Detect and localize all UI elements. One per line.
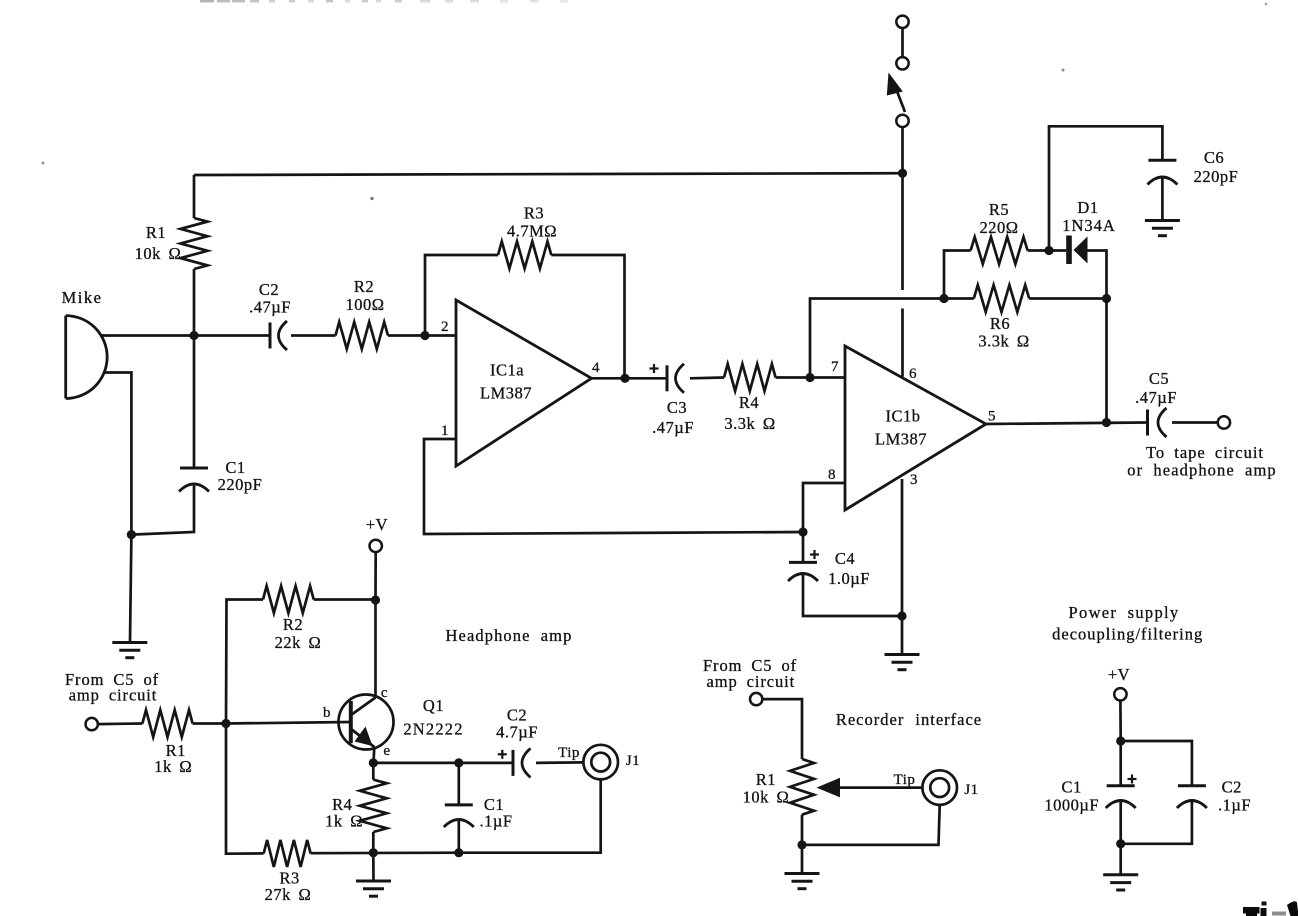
label pin 4 [592, 360, 600, 376]
wire mike output to R1 node [101, 334, 194, 337]
resistor R4 (3.3k) [724, 364, 776, 391]
svg-text:b: b [323, 705, 331, 721]
wire pin1 loop [424, 439, 803, 534]
svg-text:decoupling/filtering: decoupling/filtering [1052, 625, 1203, 644]
node pin3-C4 junction [897, 611, 906, 620]
transistor Q1 (2N2222) [339, 695, 394, 750]
svg-text:Q1: Q1 [423, 696, 444, 715]
label R5 value [979, 200, 1018, 237]
svg-text:Power supply: Power supply [1069, 603, 1180, 622]
svg-text:8: 8 [828, 467, 836, 483]
label pin 1 [441, 423, 449, 439]
node mike-C1-ground junction [127, 530, 136, 539]
wire R4 ground stub [372, 853, 375, 881]
resistor R4 headphone (1k) [360, 763, 387, 853]
label recorder interface title [836, 710, 982, 729]
label from C5 (recorder) [703, 656, 797, 691]
svg-text:2N2222: 2N2222 [403, 720, 463, 739]
label R3hp value [265, 869, 312, 904]
label power supply title [1052, 603, 1203, 644]
wire switch down to pin6 upper [901, 173, 904, 290]
label J1 headphone [626, 753, 640, 769]
svg-text:C5: C5 [1149, 369, 1169, 388]
resistor R6 (3.3k) [974, 285, 1029, 312]
svg-text:4: 4 [592, 360, 600, 376]
svg-text:3.3k Ω: 3.3k Ω [978, 332, 1029, 351]
svg-text:J1: J1 [626, 753, 640, 769]
terminal +V power [1114, 688, 1126, 700]
ground headphone [356, 881, 391, 896]
node bottom rail C1 [454, 848, 463, 857]
wire C4 bottom [803, 575, 902, 616]
wire node to C1 [193, 336, 196, 469]
resistor R1 (10k) [181, 175, 208, 336]
ground below C6 [1145, 221, 1180, 236]
label +V headphone [366, 515, 388, 534]
potentiometer R1 recorder (10k) [790, 759, 814, 845]
label C1 value [218, 458, 263, 494]
wire J1 sleeve down [459, 779, 601, 852]
wire C6 to ground [1161, 178, 1164, 220]
svg-text:1k Ω: 1k Ω [154, 757, 192, 776]
svg-text:C3: C3 [667, 398, 687, 417]
svg-text:.1µF: .1µF [479, 812, 512, 831]
capacitor C5 (.47uF) [1148, 408, 1167, 437]
ground recorder [785, 874, 820, 889]
svg-text:LM387: LM387 [480, 384, 532, 403]
resistor R3 (4.7M) [498, 242, 551, 269]
node emitter junction [369, 758, 378, 767]
svg-text:4.7MΩ: 4.7MΩ [507, 222, 557, 241]
wire R3 feedback right [551, 255, 624, 378]
svg-text:220Ω: 220Ω [979, 218, 1018, 237]
terminal +V headphone [370, 540, 382, 552]
svg-text:R3: R3 [524, 204, 544, 223]
svg-text:2: 2 [441, 319, 449, 335]
wire emitter row [373, 762, 513, 765]
label Tip recorder [894, 772, 916, 788]
label pin 5 [988, 409, 996, 425]
wiper arrow recorder [817, 778, 923, 798]
svg-text:22k Ω: 22k Ω [275, 633, 322, 652]
svg-text:1000µF: 1000µF [1044, 795, 1099, 814]
svg-text:10k Ω: 10k Ω [135, 244, 182, 263]
wire pin8 stub [803, 483, 845, 532]
label R1rec value [743, 770, 790, 807]
node pin4 junction [620, 374, 629, 383]
switch terminal top circle [896, 16, 908, 28]
svg-text:.47µF: .47µF [1135, 388, 1177, 407]
label C1ps value [1044, 778, 1099, 815]
svg-text:C6: C6 [1204, 148, 1224, 167]
decorative scan artifact dashes (not labelled circuit) [200, 0, 568, 2]
wire power ground stub [1119, 844, 1122, 875]
ground input section [112, 643, 147, 658]
svg-text:Tip: Tip [894, 772, 916, 788]
wire R5 left stub [944, 251, 971, 299]
svg-text:e: e [383, 743, 390, 759]
wire switch to top rail [901, 127, 904, 173]
label pin 8 [828, 467, 836, 483]
label IC1a [480, 361, 532, 403]
label C2hp value [496, 706, 538, 742]
capacitor C1 (220pF) [179, 468, 209, 492]
svg-text:Tip: Tip [558, 745, 580, 761]
wire mike lower terminal [104, 373, 131, 535]
svg-text:R1: R1 [146, 223, 166, 242]
label R1hp value [154, 741, 192, 776]
node collector supply junction [371, 595, 380, 604]
terminal recorder input [750, 693, 762, 705]
svg-text:C4: C4 [835, 549, 855, 568]
jack J1 headphone [583, 745, 618, 780]
svg-text:IC1a: IC1a [490, 361, 524, 380]
wire J1rec sleeve [802, 805, 940, 845]
wire C5 to output terminal [1172, 421, 1218, 424]
wire to input ground [130, 535, 131, 642]
svg-text:IC1b: IC1b [886, 407, 921, 426]
label C5 value [1135, 369, 1177, 407]
switch terminal bottom circle [896, 115, 908, 127]
capacitor C1 power (1000uF polarized) [1106, 741, 1137, 808]
terminal headphone input [86, 718, 98, 730]
label headphone amp title [446, 626, 573, 645]
label terminal e [383, 743, 390, 759]
wire switch top link [901, 28, 904, 57]
label C2ps value [1218, 778, 1251, 815]
wire switch down to pin6 lower [901, 309, 904, 377]
svg-text:Headphone amp: Headphone amp [446, 626, 573, 645]
node power top junction [1116, 736, 1125, 745]
label R2hp value [275, 615, 322, 652]
svg-text:C2: C2 [259, 280, 279, 299]
label C4 value [828, 549, 870, 588]
svg-text:R2: R2 [283, 615, 303, 634]
label IC1b [875, 407, 927, 449]
resistor R2 (100) [336, 322, 389, 349]
svg-text:220pF: 220pF [218, 475, 263, 494]
op-amp IC1b LM387 [845, 346, 986, 510]
label R4 value [724, 393, 775, 433]
svg-text:Mike: Mike [62, 288, 103, 307]
svg-text:27k Ω: 27k Ω [265, 885, 312, 904]
svg-text:.47µF: .47µF [249, 298, 291, 317]
svg-text:5: 5 [988, 409, 996, 425]
svg-text:c: c [381, 685, 388, 701]
label D1 value [1062, 198, 1116, 235]
wire +V down [374, 552, 377, 600]
svg-text:LM387: LM387 [875, 430, 927, 449]
ground power supply [1103, 875, 1138, 890]
node pin8-C4 junction [798, 527, 807, 536]
wire C2 power bottom [1121, 802, 1192, 844]
label +V power [1108, 665, 1130, 684]
capacitor C3 (.47uF polarized) [650, 364, 685, 393]
node C1hp top junction [454, 758, 463, 767]
capacitor C4 (1.0uF polarized) [788, 532, 819, 581]
wire R3hp left [226, 724, 264, 854]
wire input to R1hp [98, 722, 142, 725]
wire pin7 to feedback network [810, 299, 944, 378]
switch terminal middle circle [896, 57, 908, 69]
label C2 value [249, 280, 291, 317]
svg-text:R1: R1 [756, 770, 776, 789]
svg-text:+V: +V [1108, 665, 1130, 684]
terminal to tape circuit [1218, 416, 1230, 428]
wire R6 leads [944, 297, 1107, 300]
svg-text:R2: R2 [354, 277, 374, 296]
label pin 6 [909, 366, 917, 382]
wire R4 to pin7 node [776, 376, 810, 379]
node switch-rail junction [898, 169, 907, 178]
node base junction [221, 719, 230, 728]
wire base lead [226, 722, 351, 724]
wire +V node to collector [374, 600, 377, 698]
svg-text:R5: R5 [989, 200, 1009, 219]
wire +V power down [1119, 701, 1122, 742]
resistor R3 headphone (27k) [264, 840, 311, 867]
diode D1 (1N34A) [1049, 236, 1088, 265]
capacitor C2 (.47uF) [270, 321, 287, 350]
wire top rail R1 to switch [194, 173, 903, 175]
svg-text:1.0µF: 1.0µF [828, 569, 870, 588]
node R5-D1-C6 junction [1044, 246, 1053, 255]
label R6 value [978, 314, 1029, 351]
wire power top branch [1121, 741, 1192, 786]
label Tip headphone [558, 745, 580, 761]
wire C1 power bottom [1119, 802, 1122, 844]
label R3 value [507, 204, 557, 241]
resistor R1 headphone (1k) [142, 710, 192, 737]
wire pin5 output [986, 423, 1148, 425]
wire C3 to R4 [690, 376, 724, 379]
label terminal b [323, 705, 331, 721]
wire recorder ground stub [801, 845, 804, 873]
svg-text:220pF: 220pF [1194, 167, 1239, 186]
switch lever arm [898, 93, 906, 113]
wire feedback down to output [1105, 299, 1108, 423]
label Mike [62, 288, 103, 307]
node output-feedback junction [1102, 418, 1111, 427]
op-amp IC1a LM387 [456, 300, 592, 466]
capacitor C6 (220pF) [1147, 160, 1177, 184]
node pin7 junction [805, 373, 814, 382]
wire D1 to right corner [1088, 251, 1107, 299]
wire pin3 to ground [901, 479, 904, 654]
node recorder ground junction [797, 840, 806, 849]
capacitor C1 headphone (.1uF) [444, 763, 474, 853]
wire R2hp to +V node [314, 598, 376, 601]
wire R5 to D1 node [1028, 249, 1049, 252]
label Q1 value [403, 696, 463, 739]
resistor R5 (220) [971, 237, 1028, 264]
wire C1 bottom [131, 486, 194, 535]
wire C6 branch [1049, 126, 1162, 250]
node bottom rail R4 [369, 848, 378, 857]
label pin 7 [831, 359, 839, 375]
wire R1hp to base node [193, 722, 226, 725]
svg-text:To tape circuit: To tape circuit [1146, 443, 1264, 462]
wire recorder input [763, 699, 803, 759]
label C6 value [1194, 148, 1239, 186]
label R1 value [135, 223, 182, 263]
svg-text:C2: C2 [1222, 778, 1242, 797]
svg-text:amp circuit: amp circuit [69, 686, 158, 705]
svg-text:C1: C1 [1061, 778, 1081, 797]
svg-text:.1µF: .1µF [1218, 795, 1251, 814]
svg-text:D1: D1 [1077, 198, 1098, 217]
label terminal c [381, 685, 388, 701]
svg-text:6: 6 [909, 366, 917, 382]
wire emitter to node [372, 747, 375, 763]
wire C2 to R2 [291, 334, 336, 337]
scan speckles [42, 3, 1268, 200]
partial Fig.1 caption (cropped) [1243, 901, 1298, 916]
wire R3 feedback left [425, 255, 498, 336]
wire R2 to pin2 node [388, 334, 425, 337]
svg-text:R4: R4 [739, 393, 759, 412]
capacitor C2 power (.1uF) [1177, 786, 1207, 808]
label R2 value [345, 277, 384, 314]
wire pin2 stub [425, 334, 456, 337]
ground below IC1b [885, 655, 920, 670]
svg-text:10k Ω: 10k Ω [743, 788, 790, 807]
svg-text:+V: +V [366, 515, 388, 534]
label from C5 (headphone) [65, 670, 159, 705]
node R6 right junction [1102, 294, 1111, 303]
svg-text:Recorder interface: Recorder interface [836, 710, 982, 729]
svg-text:1N34A: 1N34A [1062, 216, 1116, 235]
jack J1 recorder [922, 770, 957, 805]
svg-text:7: 7 [831, 359, 839, 375]
wire node to C2 [194, 334, 270, 337]
svg-text:3.3k Ω: 3.3k Ω [724, 414, 775, 433]
node mike-R1-C2 junction [189, 331, 198, 340]
label R4hp value [325, 795, 363, 831]
wire bottom rail [311, 851, 459, 854]
svg-text:1k Ω: 1k Ω [325, 812, 363, 831]
svg-text:R6: R6 [990, 314, 1010, 333]
svg-text:3: 3 [910, 472, 918, 488]
svg-text:or headphone amp: or headphone amp [1127, 461, 1276, 480]
node power bottom junction [1116, 839, 1125, 848]
svg-text:4.7µF: 4.7µF [496, 723, 538, 742]
resistor R2 headphone (22k) [263, 586, 314, 613]
wire pin4 to C3 [592, 377, 668, 380]
microphone Mike [66, 316, 107, 399]
node R6 left junction [939, 294, 948, 303]
svg-text:100Ω: 100Ω [345, 295, 384, 314]
label C3 value [652, 398, 694, 437]
svg-text:amp circuit: amp circuit [707, 672, 796, 691]
node pin2 junction [420, 331, 429, 340]
label pin 2 [441, 319, 449, 335]
switch arrowhead [887, 73, 903, 96]
capacitor C2 headphone (4.7uF polarized) [498, 748, 531, 777]
svg-text:1: 1 [441, 423, 449, 439]
wire base node up [226, 600, 263, 724]
label output destination [1127, 443, 1276, 480]
label pin 3 [910, 472, 918, 488]
wire C2hp to J1 [536, 761, 583, 764]
wire pin7 stub [810, 376, 845, 379]
svg-text:.47µF: .47µF [652, 418, 694, 437]
label C1hp value [479, 795, 512, 831]
svg-text:J1: J1 [964, 782, 978, 798]
label J1 recorder [964, 782, 978, 798]
